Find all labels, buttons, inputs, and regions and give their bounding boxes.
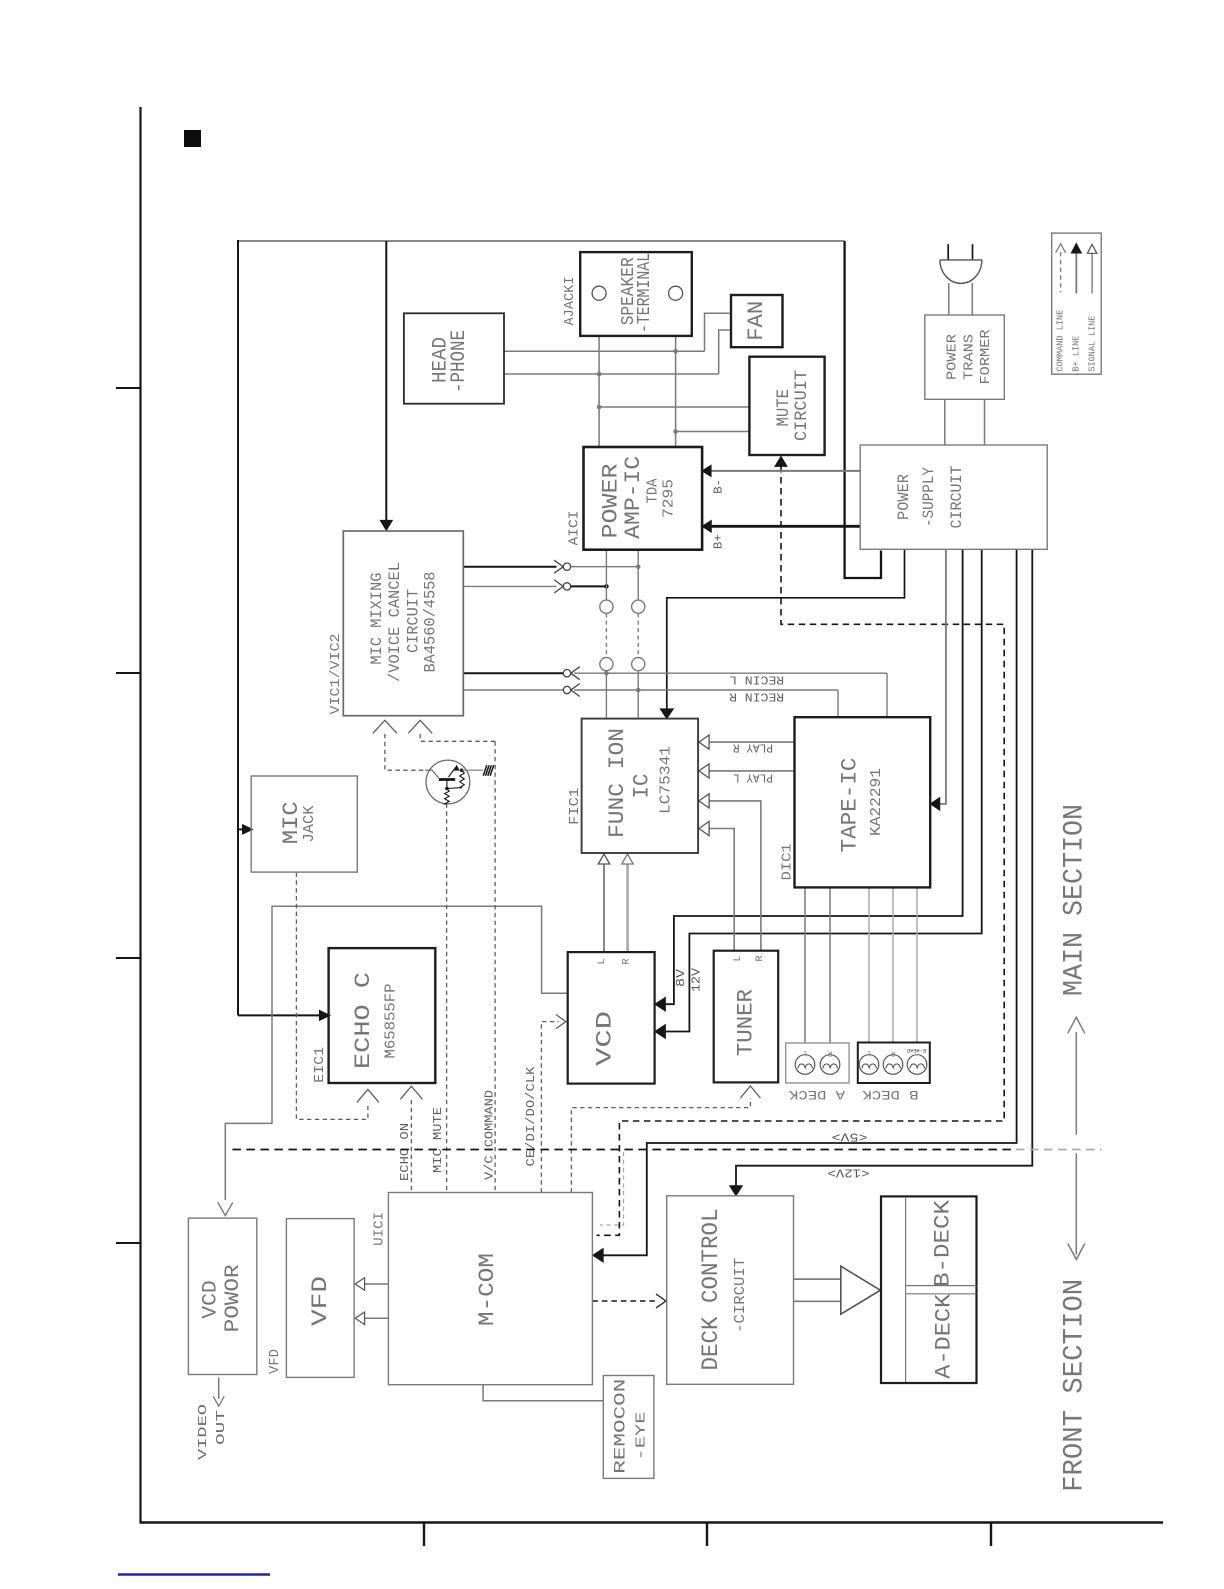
svg-text:E-HEAD: E-HEAD bbox=[906, 1047, 926, 1054]
svg-text:ECHO ON: ECHO ON bbox=[398, 1123, 412, 1181]
svg-text:CIRCUIT: CIRCUIT bbox=[792, 370, 812, 441]
svg-text:LC75341: LC75341 bbox=[658, 746, 675, 814]
svg-text:POWER: POWER bbox=[945, 334, 960, 380]
svg-text:FIC1: FIC1 bbox=[568, 788, 583, 825]
svg-text:VFD: VFD bbox=[268, 1349, 283, 1374]
svg-text:L: L bbox=[803, 1048, 807, 1056]
svg-text:AICI: AICI bbox=[568, 511, 583, 546]
svg-text:IC: IC bbox=[630, 774, 655, 799]
svg-text:B-: B- bbox=[712, 479, 726, 494]
svg-text:R: R bbox=[755, 955, 766, 961]
svg-text:DECK CONTROL: DECK CONTROL bbox=[698, 1209, 724, 1371]
svg-text:V/C COMMAND: V/C COMMAND bbox=[483, 1090, 497, 1180]
svg-text:-SUPPLY: -SUPPLY bbox=[920, 467, 938, 527]
svg-text:L: L bbox=[597, 958, 608, 964]
svg-text:12V: 12V bbox=[690, 967, 704, 992]
svg-text:OUT: OUT bbox=[214, 1410, 228, 1445]
svg-text:MIC MUTE: MIC MUTE bbox=[431, 1107, 445, 1173]
svg-text:MAIN SECTION: MAIN SECTION bbox=[1060, 804, 1091, 996]
svg-text:FORMER: FORMER bbox=[979, 330, 994, 385]
svg-text:FUNC ION: FUNC ION bbox=[605, 728, 630, 838]
svg-text:M-COM: M-COM bbox=[475, 1253, 500, 1326]
svg-text:KA22291: KA22291 bbox=[868, 768, 885, 836]
svg-text:M65855FP: M65855FP bbox=[383, 984, 400, 1059]
svg-text:VCD: VCD bbox=[199, 1280, 222, 1319]
svg-text:PLAY L: PLAY L bbox=[733, 770, 773, 784]
svg-text:VIC1/VIC2: VIC1/VIC2 bbox=[329, 634, 344, 715]
svg-text:POWER: POWER bbox=[599, 464, 624, 539]
svg-text:<12V>: <12V> bbox=[828, 1166, 870, 1180]
svg-text:FAN: FAN bbox=[744, 301, 769, 341]
svg-text:B DECK: B DECK bbox=[862, 1087, 918, 1102]
svg-text:AJACKI: AJACKI bbox=[563, 277, 578, 326]
svg-text:L: L bbox=[867, 1048, 871, 1056]
svg-text:A-DECK: A-DECK bbox=[932, 1293, 957, 1379]
svg-text:JACK: JACK bbox=[301, 806, 318, 843]
svg-text:POWER: POWER bbox=[895, 474, 913, 520]
svg-text:UICI: UICI bbox=[373, 1212, 388, 1246]
svg-text:8V: 8V bbox=[674, 968, 688, 987]
svg-text:BA4560/4558: BA4560/4558 bbox=[422, 572, 440, 673]
svg-text:<5V>: <5V> bbox=[832, 1129, 868, 1143]
svg-text:VFD: VFD bbox=[308, 1276, 333, 1326]
svg-text:EIC1: EIC1 bbox=[313, 1047, 328, 1083]
svg-text:TUNER: TUNER bbox=[734, 989, 759, 1056]
svg-text:CE/DI/DO/CLK: CE/DI/DO/CLK bbox=[524, 1066, 538, 1167]
svg-text:AMP-IC: AMP-IC bbox=[621, 456, 646, 539]
svg-text:-PHONE: -PHONE bbox=[448, 330, 471, 393]
svg-text:REMOCON: REMOCON bbox=[611, 1379, 629, 1474]
svg-text:TAPE-IC: TAPE-IC bbox=[838, 758, 863, 853]
svg-text:MIC MIXING: MIC MIXING bbox=[368, 573, 386, 665]
svg-text:A DECK: A DECK bbox=[789, 1087, 845, 1102]
svg-text:RECIN R: RECIN R bbox=[729, 690, 784, 704]
svg-text:COMMAND LINE: COMMAND LINE bbox=[1055, 310, 1065, 372]
svg-text:TRANS: TRANS bbox=[963, 334, 978, 380]
svg-text:TDA: TDA bbox=[645, 479, 662, 504]
svg-text:SIGNAL LINE: SIGNAL LINE bbox=[1087, 316, 1097, 372]
svg-text:RECIN L: RECIN L bbox=[729, 672, 784, 686]
svg-text:B-DECK: B-DECK bbox=[931, 1199, 956, 1287]
svg-text:7295: 7295 bbox=[660, 479, 677, 518]
svg-text:/VOICE CANCEL: /VOICE CANCEL bbox=[386, 562, 404, 682]
svg-text:B+: B+ bbox=[712, 534, 726, 549]
svg-text:MUTE: MUTE bbox=[774, 389, 794, 427]
svg-text:CIRCUIT: CIRCUIT bbox=[948, 466, 966, 529]
svg-text:CIRCUIT: CIRCUIT bbox=[404, 589, 422, 653]
svg-text:-TERMINAL: -TERMINAL bbox=[634, 253, 655, 333]
svg-text:VCD: VCD bbox=[593, 1011, 618, 1066]
svg-text:VIDEO: VIDEO bbox=[196, 1404, 210, 1460]
svg-text:ECHO C: ECHO C bbox=[351, 972, 376, 1069]
svg-text:FRONT SECTION: FRONT SECTION bbox=[1060, 1279, 1091, 1492]
svg-text:L: L bbox=[733, 955, 744, 961]
svg-text:-CIRCUIT: -CIRCUIT bbox=[732, 1258, 749, 1333]
svg-text:POWOR: POWOR bbox=[222, 1264, 245, 1332]
svg-text:R: R bbox=[622, 958, 633, 964]
svg-text:B+ LINE: B+ LINE bbox=[1072, 336, 1082, 372]
svg-text:-EYE: -EYE bbox=[634, 1412, 650, 1461]
svg-text:DIC1: DIC1 bbox=[781, 843, 796, 880]
svg-text:PLAY R: PLAY R bbox=[733, 740, 773, 754]
